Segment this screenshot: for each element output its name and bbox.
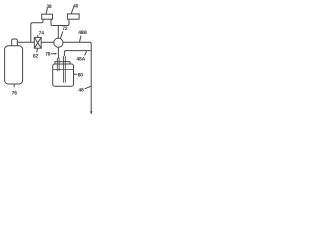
svg-text:40: 40 (73, 3, 79, 9)
svg-text:74: 74 (39, 31, 45, 37)
container 80 lid (55, 62, 70, 64)
label 76 leader (13, 85, 15, 88)
box 38 (42, 14, 53, 19)
svg-text:76: 76 (12, 90, 18, 96)
circle 72 (54, 38, 63, 47)
svg-text:48A: 48A (76, 57, 85, 63)
label 80 leader (74, 73, 78, 75)
label 82 leader (37, 48, 38, 52)
wire: box 38 to junction to box 40 (51, 19, 69, 25)
wire: pipe valve to circle 72 (41, 41, 54, 43)
liquid level line (53, 69, 73, 71)
svg-text:48B: 48B (78, 30, 87, 36)
svg-text:78: 78 (45, 52, 51, 58)
svg-text:80: 80 (78, 72, 84, 78)
box 40 (67, 14, 79, 19)
dip tube right (48A inside container) (64, 56, 66, 83)
tank 76 neck (12, 39, 18, 46)
wire: pipe 48B from circle right, corner down, long vertical pipe 48 (63, 42, 91, 113)
label 40 leader (71, 7, 73, 14)
label 78 arrowhead (55, 53, 57, 55)
container 80 body (53, 64, 74, 86)
svg-text:82: 82 (33, 53, 39, 59)
tank 76 (5, 46, 23, 84)
label 74 leader (37, 35, 39, 37)
arrowhead at bottom of pipe 48 (90, 111, 92, 114)
label 72 leader (60, 32, 62, 39)
valve 82 (34, 37, 41, 48)
wire: branch from main pipe up to box 38 (left path) (31, 19, 43, 42)
wire: pipe tank to valve 82 (17, 41, 34, 43)
wire: pipe 78 from circle bottom to container lid (57, 47, 59, 58)
label 48A leader (85, 51, 87, 55)
svg-text:72: 72 (62, 26, 68, 32)
svg-text:38: 38 (46, 4, 52, 10)
label 78 arrow leader (51, 53, 56, 55)
svg-text:48: 48 (78, 87, 84, 93)
wire: junction down to circle 72 (57, 26, 59, 39)
wire: pipe 48A from long vertical left into container (64, 51, 91, 56)
label 48B leader (80, 36, 82, 42)
label 48 leader (85, 86, 91, 89)
label 38 leader (46, 8, 47, 14)
dip tube left (pipe 78 inside container) (57, 58, 59, 71)
